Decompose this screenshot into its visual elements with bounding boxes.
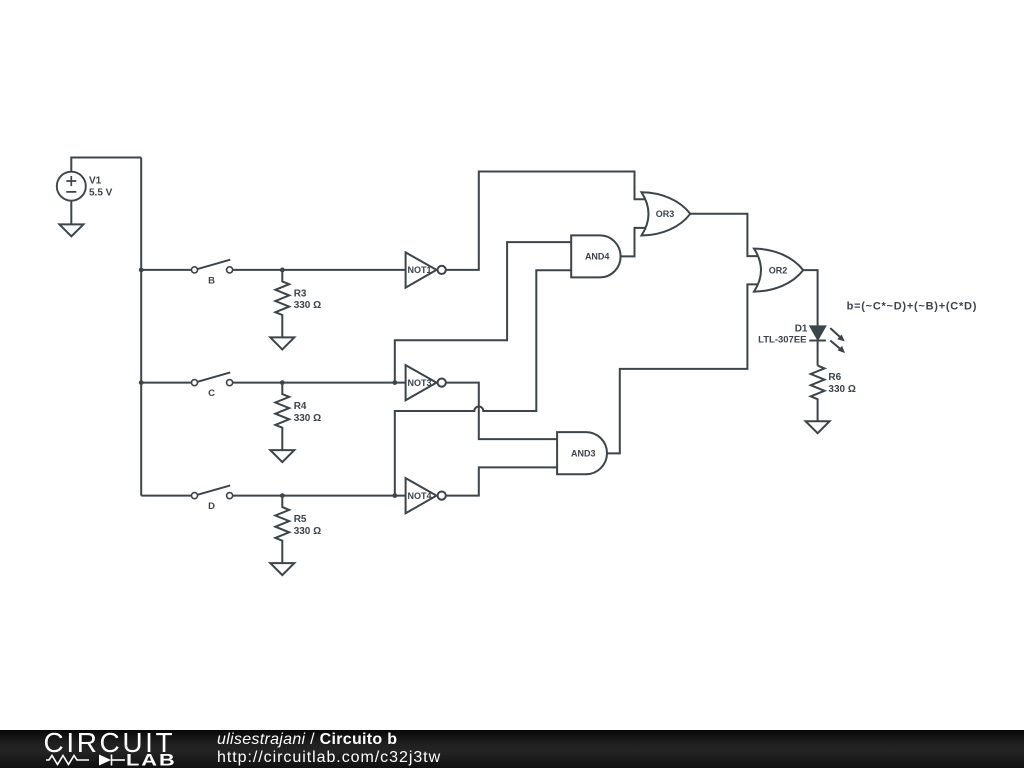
wire OR2 output to LED D1 [803, 270, 817, 327]
wire main bus vertical [140, 158, 142, 496]
svg-text:NOT1: NOT1 [407, 265, 431, 275]
wire NOT1 output to OR3 top input [446, 172, 648, 270]
svg-text:R6: R6 [828, 372, 841, 383]
svg-text:330 Ω: 330 Ω [828, 384, 855, 395]
resistor R3 [275, 270, 289, 338]
wire V1 to ground [70, 200, 72, 224]
switch C [191, 372, 232, 385]
wire AND4 output to OR3 bottom input [621, 228, 648, 257]
svg-text:LTL-307EE: LTL-307EE [758, 335, 806, 346]
svg-text:V1: V1 [89, 176, 102, 187]
svg-text:D: D [208, 501, 215, 512]
ground (below R5) [270, 563, 294, 575]
wire NOT3 output to AND3 top input [446, 383, 558, 440]
voltage source V1 [57, 172, 86, 201]
wire OR3 output to OR2 top input [690, 214, 760, 256]
ground (below R6) [806, 421, 830, 433]
node bus-C junction [139, 380, 144, 385]
node D tap to AND4 [392, 493, 397, 498]
ground (below V1) [59, 224, 83, 236]
OR gate OR2 [754, 249, 803, 292]
svg-text:AND4: AND4 [585, 252, 610, 262]
svg-text:b=(~C*~D)+(~B)+(C*D): b=(~C*~D)+(~B)+(C*D) [847, 301, 978, 313]
logo resistor-diode glyph [46, 755, 125, 766]
wire switch D to NOT4 [233, 495, 407, 497]
switch B [191, 260, 232, 273]
wire V1 top to bus [71, 158, 141, 177]
wire AND3 output to OR2 bottom input [607, 284, 760, 453]
wire bus to switch B [141, 269, 191, 271]
AND gate AND3 [557, 432, 607, 474]
svg-text:R3: R3 [294, 289, 307, 300]
wire switch C to NOT3 [233, 382, 407, 384]
svg-text:330 Ω: 330 Ω [294, 526, 321, 537]
svg-text:LAB: LAB [126, 752, 177, 769]
svg-text:330 Ω: 330 Ω [294, 413, 321, 424]
wire bus to switch C [141, 382, 191, 384]
ground (below R4) [270, 450, 294, 462]
svg-text:C: C [208, 388, 215, 399]
svg-text:NOT3: NOT3 [407, 378, 431, 388]
wire NOT4 output to AND3 bottom input [446, 467, 558, 495]
svg-text:OR3: OR3 [656, 209, 675, 219]
svg-text:NOT4: NOT4 [407, 491, 431, 501]
wire switch B to NOT1 [233, 269, 407, 271]
NOT gate NOT4 [406, 478, 446, 513]
svg-text:R4: R4 [294, 401, 307, 412]
switch D [191, 485, 232, 498]
svg-text:330 Ω: 330 Ω [294, 300, 321, 311]
svg-text:B: B [208, 275, 215, 286]
AND gate AND4 [571, 235, 620, 277]
node R5 tap [280, 493, 285, 498]
svg-text:R5: R5 [294, 514, 307, 525]
LED D1 [809, 326, 845, 365]
svg-text:D1: D1 [795, 324, 808, 335]
ground (below R3) [270, 337, 294, 349]
node bus-B junction [139, 268, 144, 273]
resistor R4 [275, 383, 289, 451]
footer bar [0, 730, 1024, 768]
wire C line tap to AND4 top input [395, 242, 572, 383]
wire bus to switch D [141, 495, 191, 497]
CircuitLab logo wordmark [44, 727, 177, 769]
resistor R6 [811, 366, 825, 422]
node R4 tap [280, 380, 285, 385]
resistor R5 [275, 496, 289, 563]
NOT gate NOT3 [406, 365, 446, 400]
junction node dots [139, 268, 397, 499]
node R3 tap [280, 268, 285, 273]
svg-text:AND3: AND3 [571, 449, 596, 459]
svg-text:OR2: OR2 [769, 265, 788, 275]
OR gate OR3 [642, 192, 691, 235]
wire D line tap to AND4 bottom input (with hop) [395, 270, 572, 495]
NOT gate NOT1 [406, 252, 446, 287]
svg-text:5.5 V: 5.5 V [89, 187, 113, 198]
node C tap to AND4 [392, 380, 397, 385]
